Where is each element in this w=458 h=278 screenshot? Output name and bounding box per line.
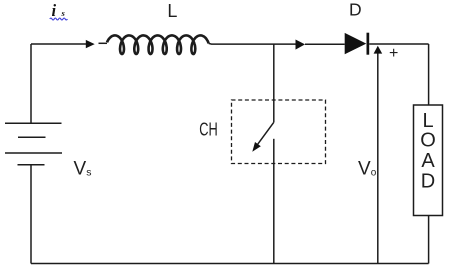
svg-text:Vo: Vo bbox=[358, 158, 377, 179]
svg-text:i: i bbox=[52, 1, 57, 20]
svg-text:s: s bbox=[61, 8, 66, 18]
svg-text:Vs: Vs bbox=[74, 158, 92, 179]
svg-text:O: O bbox=[420, 129, 436, 151]
svg-text:D: D bbox=[421, 170, 435, 192]
svg-text:+: + bbox=[389, 45, 398, 62]
svg-text:A: A bbox=[421, 150, 435, 172]
svg-text:CH: CH bbox=[199, 119, 218, 139]
svg-text:L: L bbox=[167, 1, 177, 21]
svg-text:D: D bbox=[349, 0, 362, 19]
